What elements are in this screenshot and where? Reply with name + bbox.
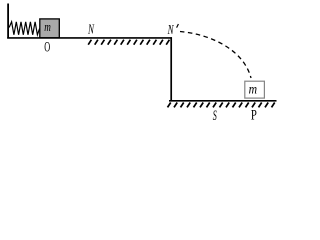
- prime of N': [177, 24, 179, 28]
- lower ground hatching: [168, 103, 275, 108]
- table surface line: [7, 37, 172, 39]
- svg-text:m: m: [249, 82, 257, 97]
- svg-text:N: N: [167, 22, 175, 37]
- svg-text:S: S: [213, 108, 217, 121]
- svg-text:N: N: [87, 22, 95, 37]
- block on spring: [40, 19, 60, 38]
- lower ground line: [169, 100, 277, 102]
- spring: [9, 22, 39, 35]
- svg-text:P: P: [251, 107, 257, 121]
- svg-text:m: m: [44, 21, 51, 35]
- cliff edge: [170, 37, 172, 101]
- table hatching: [88, 40, 169, 45]
- wall: [7, 4, 9, 39]
- trajectory dashed curve: [180, 32, 251, 79]
- svg-text:O: O: [44, 39, 50, 55]
- landed block: [245, 81, 265, 98]
